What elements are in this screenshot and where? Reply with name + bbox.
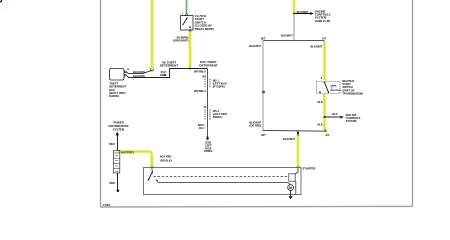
svg-text:M: M (289, 186, 292, 190)
svg-text:(OR BLK): (OR BLK) (160, 158, 172, 162)
svg-text:(ORG/WHT): (ORG/WHT) (173, 39, 188, 43)
svg-text:W5: W5 (202, 74, 206, 78)
svg-text:BLK/WHT: BLK/WHT (281, 34, 293, 38)
svg-text:TRANSMISSION): TRANSMISSION) (342, 92, 363, 96)
svg-text:6GA RED: 6GA RED (160, 155, 172, 159)
svg-text:BLK/WHT: BLK/WHT (311, 44, 323, 48)
svg-text:BLK/ORG: BLK/ORG (133, 70, 145, 74)
svg-text:BLK/ORG: BLK/ORG (133, 74, 145, 78)
svg-text:BLU: BLU (199, 126, 204, 130)
svg-text:A/T: A/T (325, 133, 330, 137)
svg-text:RED: RED (110, 181, 116, 185)
svg-text:BLK/WHT: BLK/WHT (297, 10, 309, 14)
svg-text:PANEL: PANEL (204, 149, 213, 153)
svg-text:M/T: M/T (261, 36, 266, 40)
svg-text:DETERRENT: DETERRENT (160, 64, 179, 68)
svg-text:CYBA: CYBA (103, 203, 111, 207)
svg-text:BLK: BLK (317, 100, 322, 104)
svg-text:BLK: BLK (332, 112, 337, 116)
svg-text:M/T: M/T (261, 133, 266, 137)
svg-text:(1998 91-M): (1998 91-M) (315, 19, 330, 23)
svg-text:BATTERY: BATTERY (121, 151, 134, 155)
svg-text:(OR RED): (OR RED) (249, 124, 261, 128)
svg-text:NEUTRAL: NEUTRAL (331, 89, 342, 92)
svg-text:(IF EQPD): (IF EQPD) (213, 85, 225, 89)
svg-text:SYSTEM: SYSTEM (113, 128, 125, 132)
svg-text:BLK/WHT: BLK/WHT (283, 137, 295, 141)
svg-text:BLK/WHT: BLK/WHT (249, 44, 261, 48)
svg-text:SYSTEM: SYSTEM (346, 119, 357, 123)
svg-text:DETERRENT: DETERRENT (199, 63, 218, 67)
svg-text:WHT/BLU: WHT/BLU (194, 69, 206, 73)
svg-text:RED: RED (109, 142, 115, 146)
svg-text:A/T: A/T (322, 36, 327, 40)
svg-text:PEDAL DEPR): PEDAL DEPR) (195, 27, 214, 31)
svg-text:PANEL): PANEL) (213, 115, 223, 119)
svg-text:RADIO): RADIO) (109, 94, 119, 98)
svg-text:BLK: BLK (317, 122, 322, 126)
svg-text:STARTER: STARTER (302, 167, 315, 171)
svg-text:WHT/BLU: WHT/BLU (194, 89, 206, 93)
